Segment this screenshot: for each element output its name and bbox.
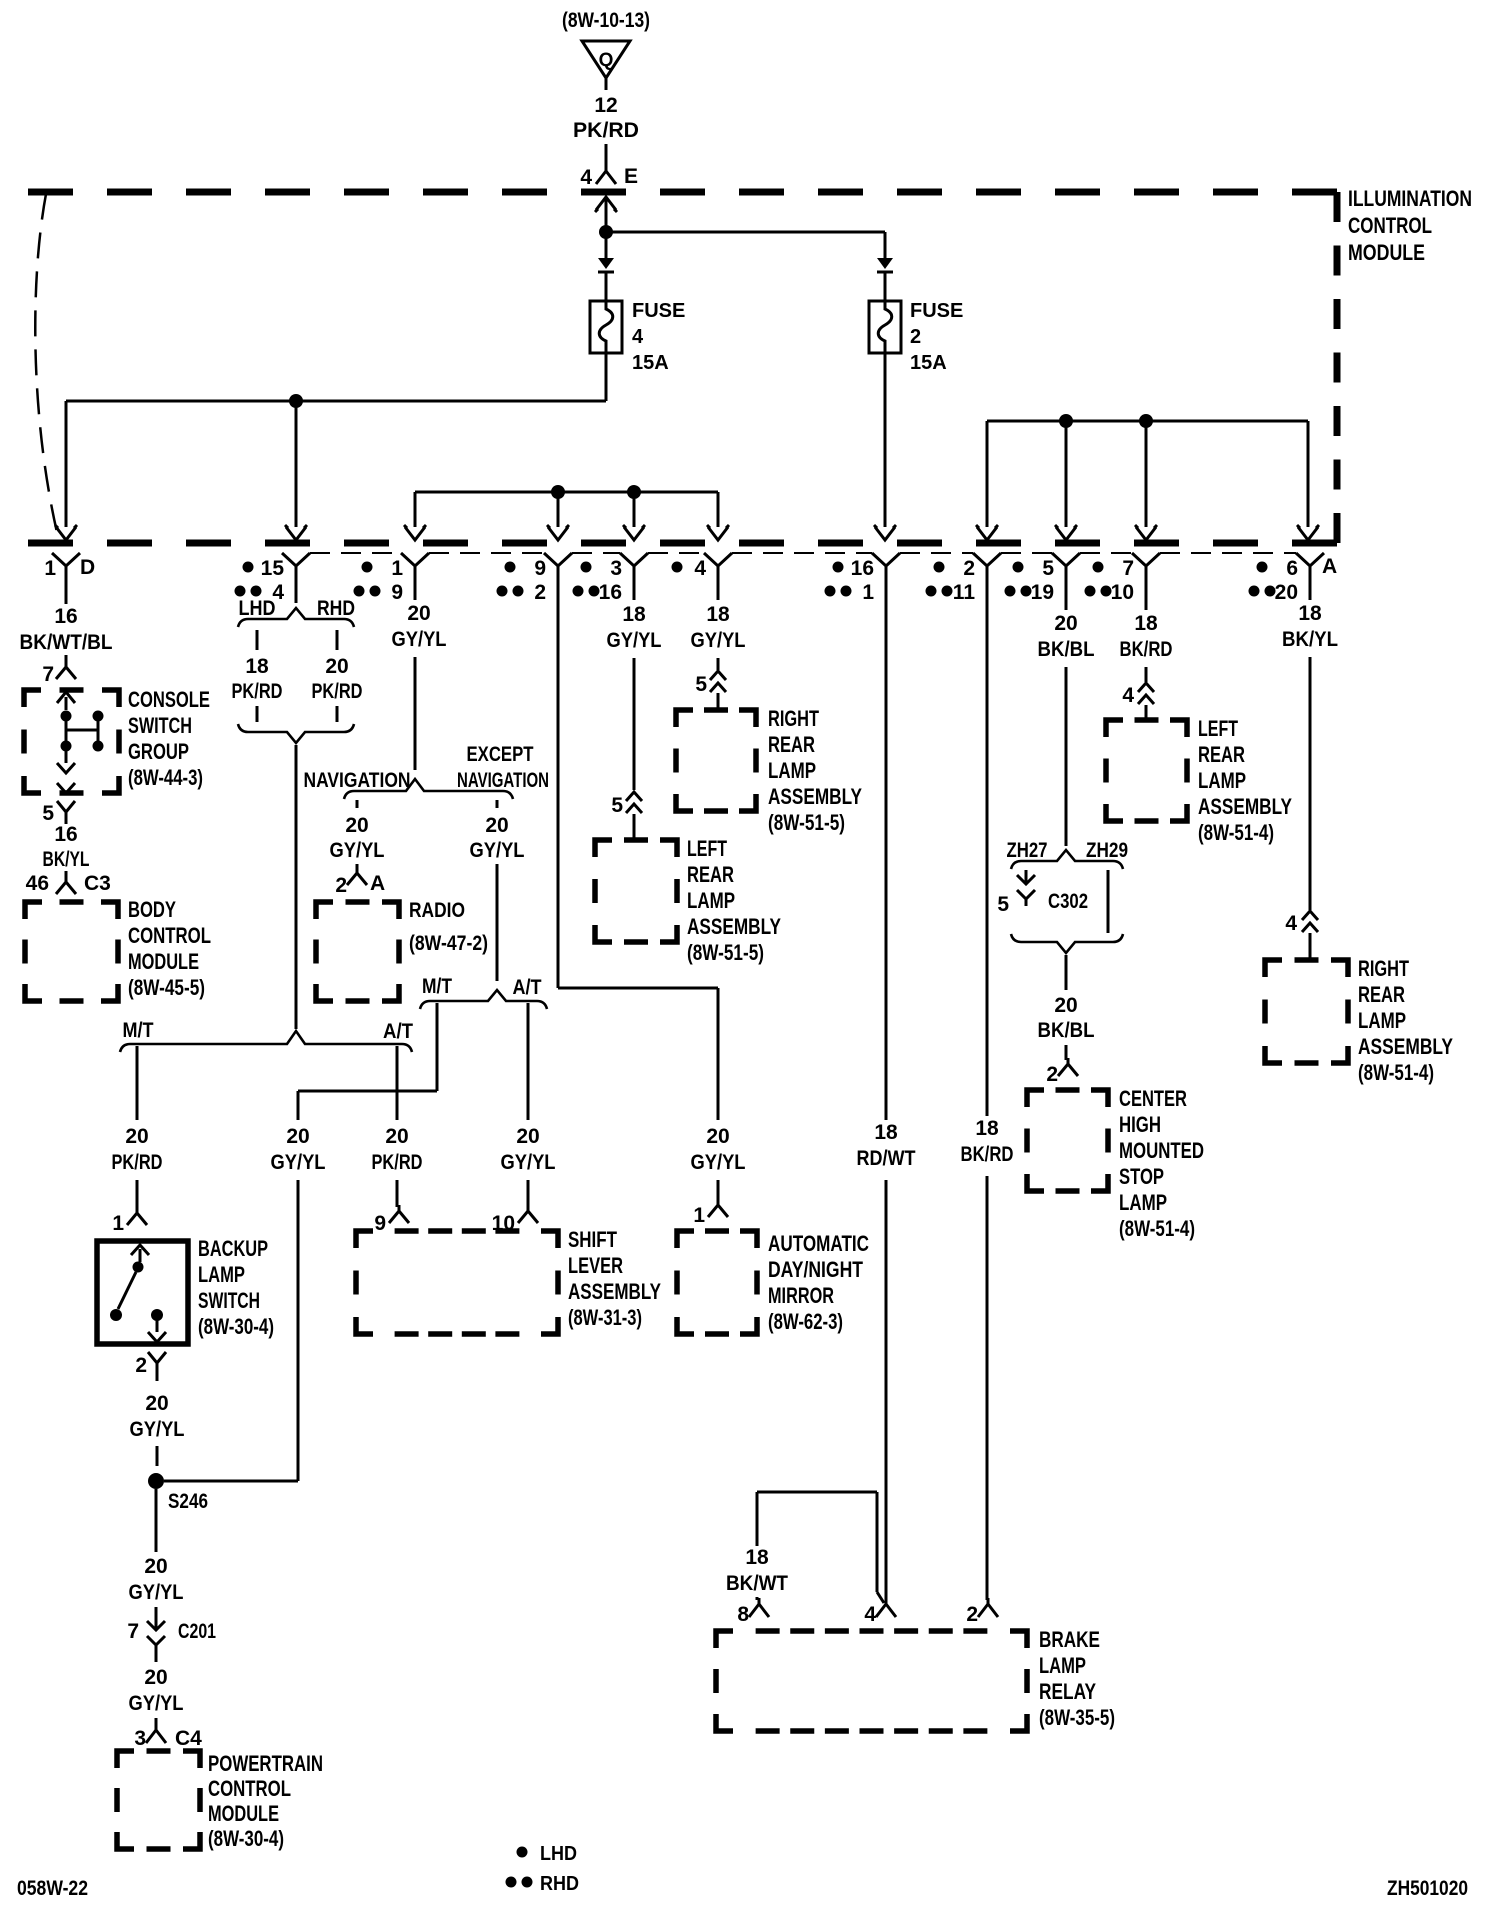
arrow into pin 3/16 [623,525,645,540]
console switch group box [24,690,119,793]
svg-text:20: 20 [325,655,348,678]
svg-text:SHIFT: SHIFT [568,1227,617,1252]
svg-text:15: 15 [261,557,285,580]
svg-text:9: 9 [391,581,403,604]
svg-text:8: 8 [737,1603,749,1626]
svg-text:LAMP: LAMP [687,888,735,913]
svg-text:ZH29: ZH29 [1086,839,1128,862]
A/T branch wire 20 PK/RD (shift lever assembly) [369,1046,426,1207]
svg-text:18: 18 [706,603,730,626]
svg-text:CONSOLE: CONSOLE [128,687,210,712]
svg-text:(8W-51-5): (8W-51-5) [768,810,845,835]
svg-text:7: 7 [127,1620,139,1643]
internal bus 2 (pins 1,9,3,4) [415,492,718,527]
svg-text:20: 20 [144,1555,167,1578]
svg-text:AUTOMATIC: AUTOMATIC [768,1231,869,1256]
svg-text:GY/YL: GY/YL [607,629,662,652]
arrow into pin 9/2 [547,525,569,540]
connector C4 pin 3 (PCM) [134,1724,202,1750]
svg-text:(8W-51-5): (8W-51-5) [687,940,764,965]
svg-text:18: 18 [745,1546,769,1569]
svg-text:4: 4 [1122,684,1134,707]
internal bus 3 (pins 2,5,7,6) [987,421,1308,527]
svg-text:BK/YL: BK/YL [43,848,90,871]
svg-text:SWITCH: SWITCH [198,1288,260,1313]
connector D pin 1 fork [52,553,80,586]
connector pin 15/4 fork [282,553,310,586]
connector pin 2 (brake lamp relay) [966,1598,998,1626]
svg-text:ASSEMBLY: ASSEMBLY [1198,794,1292,819]
svg-text:11: 11 [953,581,976,604]
svg-text:2: 2 [1046,1063,1058,1086]
svg-text:18: 18 [975,1117,999,1140]
svg-text:ZH501020: ZH501020 [1387,1877,1468,1900]
svg-text:(8W-10-13): (8W-10-13) [562,9,650,32]
pin ids 2 / 11 [926,557,976,604]
svg-text:5: 5 [1042,557,1054,580]
svg-text:20: 20 [516,1125,539,1148]
junction on bus 3 at pin 7 [1139,414,1153,428]
svg-text:20: 20 [345,814,368,837]
arrow into pin 1/9 [404,525,426,540]
body control module labels [128,897,211,1000]
svg-text:7: 7 [42,663,54,686]
svg-text:16: 16 [851,557,874,580]
pin ids 15 / 4 [235,557,285,604]
right rear lamp assembly box (8W-51-5) [676,710,756,811]
backup lamp switch internals [110,1245,166,1342]
svg-text:(8W-30-4): (8W-30-4) [198,1314,274,1339]
svg-text:20: 20 [485,814,508,837]
svg-text:2: 2 [534,581,546,604]
svg-text:BK/RD: BK/RD [1120,638,1173,661]
svg-text:MODULE: MODULE [208,1801,279,1826]
wire from pin 15/4 [295,586,298,603]
arrow into pin 5/19 [1055,525,1077,540]
connector pin 8 (brake lamp relay) [737,1598,769,1626]
shift lever assembly box [356,1231,558,1334]
svg-text:GY/YL: GY/YL [470,839,525,862]
svg-text:18: 18 [1134,612,1158,635]
right rear lamp assembly box (8W-51-4) [1265,960,1348,1063]
wire 20 BK/BL to CHMSL [1038,955,1095,1060]
svg-text:LAMP: LAMP [1119,1190,1167,1215]
brake lamp relay box [716,1631,1027,1731]
feed tap symbol at fuse 4 [598,238,614,272]
pin 1 label (connector D) [44,556,95,580]
svg-text:GY/YL: GY/YL [330,839,385,862]
svg-text:5: 5 [42,802,54,825]
NAVIGATION / EXCEPT NAVIGATION labels [304,743,550,792]
legend RHD [506,1873,580,1895]
connector strip (in-line connectors along module) [310,552,1296,554]
svg-text:20: 20 [144,1666,167,1689]
svg-text:18: 18 [1298,602,1322,625]
wire 20 GY/YL to C201 [129,1489,184,1616]
svg-text:A: A [1322,555,1337,578]
svg-text:19: 19 [1031,581,1054,604]
svg-text:NAVIGATION: NAVIGATION [304,769,411,792]
navigation split brace [344,779,513,799]
svg-text:BK/BL: BK/BL [1038,638,1095,661]
connector pin 4 fork [704,553,732,586]
svg-text:GY/YL: GY/YL [129,1692,184,1715]
right rear lamp assembly labels (8W-51-5) [768,706,862,835]
pin ids 6 / 20 and connector A label [1249,555,1338,604]
connector pin 7/10 fork [1132,553,1160,586]
svg-text:C3: C3 [84,872,111,895]
svg-text:A/T: A/T [513,976,542,999]
svg-text:4: 4 [864,1603,876,1626]
svg-text:RD/WT: RD/WT [857,1147,916,1170]
wire 18 GY/YL (left rear lamp 8W-51-5) [604,586,665,790]
svg-text:BODY: BODY [128,897,176,922]
svg-text:C302: C302 [1048,890,1088,913]
svg-text:C201: C201 [178,1620,216,1643]
svg-text:GY/YL: GY/YL [691,629,746,652]
svg-text:5: 5 [695,673,707,696]
svg-text:RELAY: RELAY [1039,1679,1096,1704]
svg-text:LAMP: LAMP [1198,768,1246,793]
svg-text:(8W-30-4): (8W-30-4) [208,1826,284,1851]
svg-text:5: 5 [611,794,623,817]
svg-text:LAMP: LAMP [768,758,816,783]
junction on bus 3 at pin 5 [1059,414,1073,428]
svg-text:LHD: LHD [540,1843,577,1865]
svg-text:GY/YL: GY/YL [130,1418,185,1441]
shift lever assembly labels [568,1227,661,1330]
connector pin 2 A (radio) [335,868,385,897]
wire from connector E into module (arrow up at boundary) [595,197,617,232]
left rear lamp assembly box (8W-51-4) [1106,720,1187,821]
svg-text:20: 20 [1054,994,1077,1017]
svg-text:MIRROR: MIRROR [768,1283,834,1308]
svg-text:LAMP: LAMP [1358,1008,1406,1033]
wire GY/YL to automatic day/night mirror [558,586,749,1200]
arrow into pin 6/20 (A) [1297,525,1319,540]
svg-text:SWITCH: SWITCH [128,713,192,738]
radio box [316,902,399,1001]
backup lamp switch box [97,1241,188,1344]
ZH29 branch wire [1107,870,1110,933]
svg-text:CONTROL: CONTROL [128,923,211,948]
fused ignition feed symbol Q [582,41,630,90]
svg-text:1: 1 [391,557,403,580]
pin ids 5 / 19 [1005,557,1055,604]
M/T branch wire 20 PK/RD (backup lamp switch) [109,1046,166,1209]
pin ids 3 / 16 [573,557,623,604]
connector pin 9/2 fork [544,553,572,586]
svg-text:A: A [370,872,385,895]
off-page reference 5 (left rear lamp) [611,792,642,840]
off-page reference 4 (left rear lamp) [1122,683,1154,720]
svg-text:16: 16 [599,581,622,604]
svg-text:LEFT: LEFT [1198,716,1238,741]
svg-text:GROUP: GROUP [128,739,189,764]
svg-text:CONTROL: CONTROL [208,1776,291,1801]
svg-text:20: 20 [125,1125,148,1148]
svg-text:9: 9 [534,557,546,580]
connector C201 pin 7 (inline) [127,1616,216,1652]
LHD/RHD merge brace [238,724,354,743]
svg-text:M/T: M/T [422,975,452,998]
arrow into pin D [55,525,77,540]
internal bus 1 (fuse 4 to pins D and 15) [66,401,606,527]
wire 18 RD/WT (brake lamp relay) [854,586,919,1600]
svg-text:20: 20 [145,1392,168,1415]
M/T / A/T labels (long split) [123,1019,414,1043]
svg-text:REAR: REAR [768,732,815,757]
svg-text:REAR: REAR [1198,742,1245,767]
except-navigation branch wire 20 GY/YL [470,800,525,981]
connector pin 7 (console switch group) [42,655,76,686]
junction on bus 2 at pin 9 [551,485,565,499]
svg-text:20: 20 [407,602,430,625]
automatic day/night mirror labels [768,1231,869,1334]
svg-text:ASSEMBLY: ASSEMBLY [768,784,862,809]
svg-text:(8W-31-3): (8W-31-3) [568,1305,642,1330]
svg-text:4: 4 [632,326,644,348]
fuse 4 (15A) [590,272,685,374]
svg-text:1: 1 [112,1212,124,1235]
wire fuse 2 output to pin 16 [874,353,896,540]
RHD branch wire 20 PK/RD [312,630,363,722]
svg-text:RADIO: RADIO [409,899,465,922]
pin id 4 [672,557,707,580]
M/T branch wire jog to GY/YL column [298,1003,437,1091]
svg-text:46: 46 [26,872,49,895]
svg-text:2: 2 [910,326,921,348]
power feed reference (8W-10-13) [562,9,650,32]
svg-text:EXCEPT: EXCEPT [467,743,534,766]
svg-text:4: 4 [580,166,592,189]
svg-text:A/T: A/T [383,1020,413,1043]
arrow into pin 15/4 [285,525,307,540]
svg-text:E: E [624,165,638,188]
svg-text:BK/YL: BK/YL [1282,628,1338,651]
connector pin 1 (mirror) [693,1200,728,1227]
center high mounted stop lamp box [1027,1090,1108,1191]
svg-text:(8W-47-2): (8W-47-2) [409,932,488,955]
navigation branch wire 20 GY/YL [330,800,385,870]
svg-text:20: 20 [286,1125,309,1148]
svg-text:058W-22: 058W-22 [17,1877,88,1900]
LHD branch wire 18 PK/RD [232,630,283,722]
connector pin 4 (brake lamp relay) [864,1598,896,1626]
branch wire 18 BK/WT (brake lamp relay pin 8) [726,1492,884,1603]
svg-text:CENTER: CENTER [1119,1086,1187,1111]
arrow into pin 7/10 [1135,525,1157,540]
svg-text:LAMP: LAMP [1039,1653,1086,1678]
LHD / RHD labels [239,597,356,620]
svg-text:S246: S246 [168,1490,208,1513]
connector pin 2 (CHMSL) [1046,1058,1078,1086]
wire 18 BK/RD (left rear lamp 8W-51-4) [1117,586,1176,682]
svg-text:12: 12 [594,94,617,117]
arrow into pin 2/11 [976,525,998,540]
svg-text:BK/WT: BK/WT [726,1572,788,1595]
svg-text:(8W-51-4): (8W-51-4) [1358,1060,1434,1085]
svg-text:2: 2 [135,1354,147,1377]
svg-text:PK/RD: PK/RD [312,680,363,703]
left rear lamp assembly box (8W-51-5) [595,840,677,942]
svg-text:RHD: RHD [317,597,355,620]
svg-text:16: 16 [54,605,77,628]
wire 12 PK/RD [573,94,639,160]
svg-text:(8W-51-4): (8W-51-4) [1119,1216,1195,1241]
svg-text:POWERTRAIN: POWERTRAIN [208,1751,323,1776]
svg-text:18: 18 [245,655,269,678]
radio labels [409,899,488,955]
body control module box [25,902,118,1001]
svg-text:NAVIGATION: NAVIGATION [457,769,549,792]
svg-text:LEVER: LEVER [568,1253,623,1278]
center high mounted stop lamp labels [1119,1086,1204,1241]
svg-text:BACKUP: BACKUP [198,1236,268,1261]
wire 18 GY/YL (right rear lamp 8W-51-5) [688,586,749,670]
illumination control module boundary (right edge) [1334,192,1341,543]
ZH27 / ZH29 labels [1007,839,1129,862]
svg-text:REAR: REAR [687,862,734,887]
diagram id ZH501020 [1387,1877,1468,1900]
svg-text:ILLUMINATION: ILLUMINATION [1348,186,1472,211]
wire 20 BK/BL [1035,586,1098,846]
connector pin 3/16 fork [620,553,648,586]
pin ids 16 / 1 [825,557,875,604]
ZH27/ZH29 merge brace [1011,934,1123,953]
M/T / A/T long split brace [120,1031,412,1052]
left rear lamp assembly labels (8W-51-5) [687,836,781,965]
svg-text:RIGHT: RIGHT [1358,956,1409,981]
powertrain control module labels [208,1751,323,1851]
svg-text:1: 1 [862,581,874,604]
svg-text:RIGHT: RIGHT [768,706,819,731]
svg-text:D: D [80,556,95,579]
off-page reference 4 (right rear lamp) [1285,911,1318,960]
svg-text:MODULE: MODULE [1348,240,1425,265]
sheet number 058W-22 [17,1877,88,1900]
backup lamp switch labels [198,1236,274,1339]
M/T / A/T labels (except-nav split) [422,975,542,999]
svg-text:15A: 15A [632,352,669,374]
console switch group internals (switch) [57,692,104,793]
wire fuse 4 output [605,353,608,401]
svg-text:GY/YL: GY/YL [691,1151,746,1174]
wire 20 GY/YL below backup lamp switch [130,1392,185,1466]
svg-text:(8W-45-5): (8W-45-5) [128,975,205,1000]
svg-text:ASSEMBLY: ASSEMBLY [568,1279,661,1304]
svg-text:PK/RD: PK/RD [573,119,639,142]
A/T branch wire 20 GY/YL (shift lever assembly) [498,1003,559,1207]
svg-text:7: 7 [1122,557,1134,580]
svg-text:20: 20 [1054,612,1077,635]
svg-text:(8W-35-5): (8W-35-5) [1039,1705,1115,1730]
svg-text:GY/YL: GY/YL [271,1151,326,1174]
svg-text:BK/RD: BK/RD [961,1143,1014,1166]
svg-text:DAY/NIGHT: DAY/NIGHT [768,1257,863,1282]
svg-text:GY/YL: GY/YL [501,1151,556,1174]
feed tap symbol at fuse 2 [877,258,893,272]
svg-text:Q: Q [599,50,614,71]
svg-text:BRAKE: BRAKE [1039,1627,1100,1652]
wire 20 GY/YL to PCM [129,1652,184,1726]
svg-text:5: 5 [997,893,1009,916]
svg-text:MOUNTED: MOUNTED [1119,1138,1204,1163]
svg-text:1: 1 [693,1204,705,1227]
svg-text:ASSEMBLY: ASSEMBLY [687,914,781,939]
connector pin 16/1 fork [872,553,900,586]
svg-text:18: 18 [874,1121,898,1144]
svg-text:FUSE: FUSE [632,300,685,322]
connector E pin 4 (to Illumination Control Module) [580,158,638,189]
illumination control module boundary (left torn edge) [35,194,59,541]
left rear lamp assembly labels (8W-51-4) [1198,716,1292,845]
connector C302 pin 5 (inline) [997,870,1088,916]
pin ids 7 / 10 [1085,557,1135,604]
ZH27/ZH29 split brace [1011,850,1123,869]
fuse 2 (15A) [869,272,963,374]
connector pin 2/11 fork [973,553,1001,586]
svg-text:16: 16 [54,823,77,846]
illumination control module boundary (top edge) [28,189,1337,196]
wire 20 GY/YL from pin 1/9 [389,586,450,770]
svg-text:MODULE: MODULE [128,949,199,974]
powertrain control module box [117,1751,200,1849]
svg-text:PK/RD: PK/RD [372,1151,423,1174]
svg-text:LAMP: LAMP [198,1262,245,1287]
svg-text:15A: 15A [910,352,947,374]
wire 16 BK/WT/BL [17,586,116,654]
connector A pin 6/20 fork [1296,553,1324,586]
svg-text:GY/YL: GY/YL [392,628,447,651]
internal bus wire to fuse 2 [606,232,885,258]
svg-text:BK/WT/BL: BK/WT/BL [20,631,113,654]
svg-text:3: 3 [134,1727,146,1750]
pin ids 1 / 9 [354,557,404,604]
connector pin 1 (backup lamp switch) [112,1207,147,1235]
svg-text:BK/BL: BK/BL [1038,1019,1095,1042]
connector pin 10 (shift lever assembly) [492,1205,538,1235]
svg-text:CONTROL: CONTROL [1348,213,1432,238]
junction on bus 1 [289,394,303,408]
svg-text:REAR: REAR [1358,982,1405,1007]
svg-text:2: 2 [335,874,347,897]
svg-text:3: 3 [610,557,622,580]
connector pin 2 (backup lamp switch) [135,1352,166,1381]
pin ids 9 / 2 [497,557,547,604]
svg-text:HIGH: HIGH [1119,1112,1161,1137]
wire PK/RD down to M/T-A/T split [295,745,298,1029]
module name ILLUMINATION CONTROL MODULE [1348,186,1472,265]
svg-text:10: 10 [1111,581,1134,604]
svg-text:ASSEMBLY: ASSEMBLY [1358,1034,1453,1059]
svg-text:M/T: M/T [123,1019,154,1042]
illumination control module boundary (bottom edge) [28,540,1337,547]
wire 18 BK/YL (right rear lamp 8W-51-4) [1279,586,1341,910]
automatic day/night mirror box [677,1231,757,1334]
svg-text:1: 1 [44,557,56,580]
junction on bus 2 at pin 3 [627,485,641,499]
svg-text:(8W-44-3): (8W-44-3) [128,765,203,790]
svg-text:RHD: RHD [540,1873,579,1895]
brake lamp relay labels [1039,1627,1115,1730]
connector pin 5/19 fork [1052,553,1080,586]
legend LHD [517,1843,578,1865]
svg-text:20: 20 [385,1125,408,1148]
svg-text:9: 9 [374,1212,386,1235]
off-page reference 5 (right rear lamp) [695,671,726,710]
connector pin 1/9 fork [401,553,429,586]
